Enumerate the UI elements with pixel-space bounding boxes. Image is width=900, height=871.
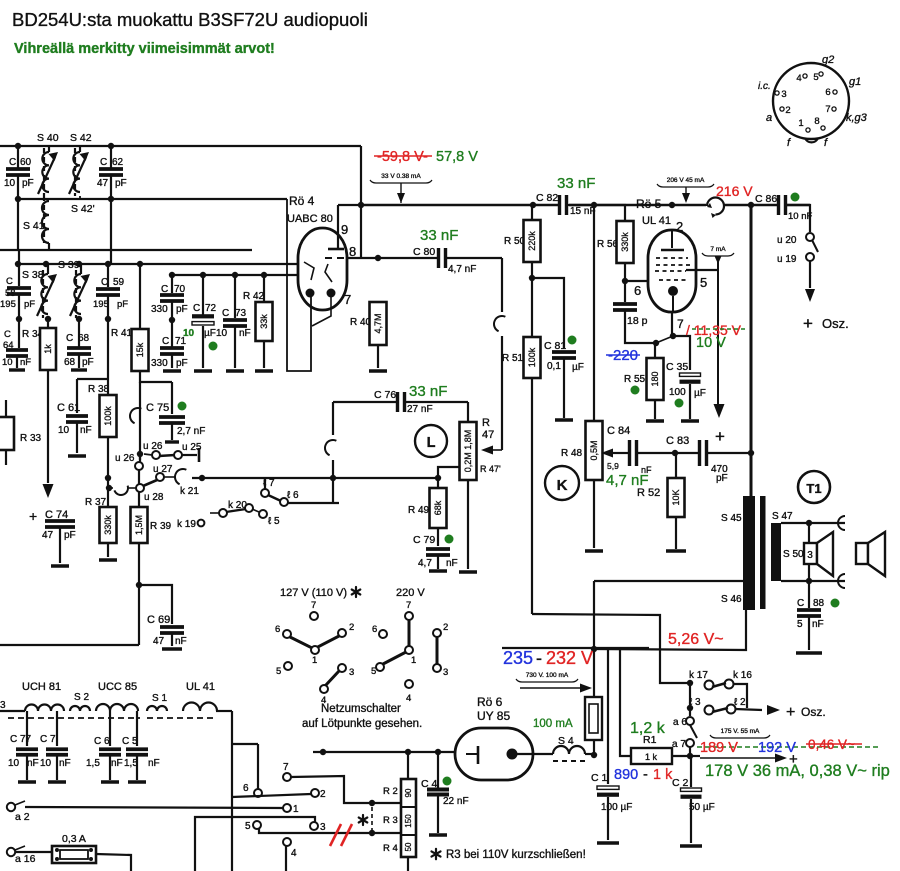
- svg-text:189 V: 189 V: [700, 740, 738, 756]
- svg-text:+: +: [715, 427, 725, 446]
- junction: [15, 196, 21, 202]
- svg-text:100 µF: 100 µF: [601, 802, 632, 813]
- svg-text:90: 90: [404, 788, 413, 797]
- svg-text:S 42: S 42: [70, 132, 92, 144]
- junction: [169, 272, 175, 278]
- svg-text:150: 150: [404, 814, 413, 828]
- svg-text:pF: pF: [24, 299, 35, 310]
- svg-text:216 V: 216 V: [716, 183, 753, 199]
- svg-text:k 19: k 19: [177, 519, 196, 530]
- hook to speaker2 top: [838, 516, 845, 530]
- svg-text:T1: T1: [806, 481, 821, 496]
- svg-text:C 75: C 75: [146, 402, 169, 414]
- wire divider feed from heater line: [407, 753, 409, 779]
- svg-text:a 16: a 16: [15, 853, 36, 865]
- svg-text:k 17: k 17: [689, 670, 708, 681]
- circle T1: [798, 471, 830, 503]
- svg-text:k 21: k 21: [180, 486, 199, 497]
- svg-text:R 52: R 52: [637, 487, 660, 499]
- fuse box on B+: [585, 697, 602, 740]
- svg-text:S 47: S 47: [772, 511, 793, 522]
- svg-text:S 45: S 45: [721, 513, 742, 524]
- wire R48 bottom to ground: [593, 480, 595, 548]
- svg-text:C 82: C 82: [536, 192, 558, 204]
- wire pin7 to C35: [673, 336, 690, 370]
- wire contact5 to R3 tap: [259, 828, 401, 833]
- svg-text:10: 10: [2, 357, 13, 368]
- svg-text:u 26: u 26: [143, 441, 163, 452]
- svg-text:5,9: 5,9: [607, 461, 619, 471]
- svg-text:1: 1: [798, 118, 803, 129]
- junction: [108, 196, 114, 202]
- wire node to measure arrow: [690, 755, 700, 757]
- wire R47 bottom to ground: [467, 480, 469, 569]
- transformer secondary bar S47: [771, 523, 781, 581]
- svg-text:10 V: 10 V: [696, 335, 726, 351]
- svg-text:auf Lötpunkte gesehen.: auf Lötpunkte gesehen.: [302, 718, 422, 730]
- svg-text:Rö 5: Rö 5: [636, 197, 662, 211]
- Rö4 grid dashes: [325, 257, 332, 259]
- wire R1 feed: [620, 650, 631, 756]
- svg-text:nF: nF: [20, 357, 31, 368]
- svg-text:Rö 4: Rö 4: [289, 194, 315, 208]
- ground: [255, 369, 273, 372]
- wire R34 down to C74 arrow: [47, 370, 49, 483]
- Rö5 internals: [671, 231, 673, 248]
- svg-text:5: 5: [797, 619, 803, 630]
- junction: [105, 475, 111, 481]
- svg-text:10: 10: [216, 328, 228, 339]
- wire R50 bottom to C81 column: [532, 278, 564, 348]
- junction: [622, 278, 628, 284]
- svg-text:2,7 nF: 2,7 nF: [177, 426, 205, 437]
- svg-text:1k: 1k: [43, 344, 53, 354]
- svg-text:7: 7: [344, 292, 351, 307]
- svg-text:-: -: [536, 648, 542, 668]
- wire divider bottom: [407, 857, 409, 871]
- svg-text:R3 bei 110V kurzschließen!: R3 bei 110V kurzschließen!: [446, 849, 586, 861]
- svg-text:R 48: R 48: [561, 448, 583, 459]
- svg-text:C: C: [222, 308, 229, 319]
- svg-text:22 nF: 22 nF: [443, 796, 469, 807]
- contact u26 tap ring: [135, 462, 143, 470]
- svg-text:UCC 85: UCC 85: [98, 681, 137, 693]
- ground: [680, 844, 702, 847]
- svg-text:68: 68: [78, 333, 90, 344]
- wire pin7 down: [671, 311, 673, 336]
- svg-text:C 79: C 79: [413, 534, 435, 546]
- svg-text:47: 47: [153, 636, 165, 647]
- svg-text:220k: 220k: [527, 231, 537, 251]
- svg-text:R 38: R 38: [88, 384, 110, 395]
- svg-text:10: 10: [40, 758, 52, 769]
- ground: [162, 647, 182, 650]
- svg-text:232 V: 232 V: [546, 648, 593, 668]
- ground: [194, 369, 212, 372]
- svg-text:C: C: [66, 333, 73, 344]
- svg-text:nF: nF: [111, 758, 123, 769]
- svg-text:R 33: R 33: [20, 433, 42, 444]
- ground: [429, 569, 447, 572]
- wire heater rail y=615: [532, 614, 688, 683]
- svg-text:7: 7: [406, 600, 411, 611]
- svg-text:33 nF: 33 nF: [557, 175, 595, 192]
- svg-text:C: C: [4, 329, 11, 340]
- wire 235V stub: [502, 647, 649, 649]
- svg-text:890: 890: [614, 767, 638, 783]
- svg-text:7 mA: 7 mA: [710, 246, 726, 253]
- wire C76 rail: [333, 401, 398, 403]
- hook crossing: [127, 405, 141, 423]
- svg-text:u 26: u 26: [115, 453, 135, 464]
- wire a16 to fuse: [15, 851, 52, 853]
- ground: [226, 369, 244, 372]
- S42-prime step wire: [79, 196, 81, 199]
- svg-text:100: 100: [669, 387, 686, 398]
- svg-text:R1: R1: [643, 734, 657, 746]
- ground: [597, 841, 619, 844]
- junction: [670, 333, 676, 339]
- svg-text:pF: pF: [716, 473, 728, 484]
- svg-text:R: R: [482, 417, 490, 429]
- arrow down from bracket: [400, 183, 402, 203]
- wire heater corner: [216, 710, 232, 712]
- svg-text:nF: nF: [812, 619, 824, 630]
- svg-text:5: 5: [245, 821, 251, 832]
- svg-text:2: 2: [443, 622, 448, 633]
- svg-text:72: 72: [205, 303, 217, 314]
- arrow down to Osz: [805, 289, 815, 302]
- svg-text:Netzumschalter: Netzumschalter: [321, 703, 401, 715]
- svg-text:pF: pF: [82, 357, 94, 368]
- Rö6 anode dot: [507, 749, 518, 760]
- red double slash: [330, 824, 341, 846]
- junction: [169, 317, 175, 323]
- junction: [672, 450, 678, 456]
- svg-text:+: +: [786, 704, 795, 721]
- svg-text:206 V 45 mA: 206 V 45 mA: [667, 177, 705, 184]
- svg-text:pF: pF: [64, 530, 76, 541]
- svg-text:27 nF: 27 nF: [407, 404, 433, 415]
- wire to R56: [594, 205, 625, 221]
- green dot: [209, 342, 218, 351]
- hook crossing on u28 wire: [114, 486, 130, 497]
- svg-text:330: 330: [151, 304, 168, 315]
- svg-text:S 40: S 40: [37, 132, 59, 144]
- wire rail T2 y=264: [18, 263, 302, 265]
- junction: [591, 752, 597, 758]
- svg-text:R 42: R 42: [243, 291, 265, 302]
- junction: [43, 261, 49, 267]
- junction: [806, 520, 812, 526]
- svg-text:57,8 V: 57,8 V: [436, 149, 478, 165]
- svg-text:2: 2: [349, 622, 354, 633]
- svg-text:C 6: C 6: [94, 736, 110, 747]
- svg-text:6: 6: [275, 624, 280, 635]
- dashed link with star: [371, 807, 373, 830]
- svg-text:7: 7: [283, 762, 289, 773]
- wire R1 to node: [672, 755, 690, 757]
- junction: [105, 261, 111, 267]
- wire rail T1 y=250: [0, 249, 252, 251]
- svg-text:nF: nF: [175, 636, 187, 647]
- tube socket diagram: [773, 63, 849, 142]
- svg-text:195: 195: [93, 299, 109, 310]
- svg-text:127 V (110 V): 127 V (110 V): [280, 587, 347, 599]
- svg-text:C 69: C 69: [147, 614, 170, 626]
- wire C83 to output column: [707, 452, 751, 454]
- svg-text:3: 3: [0, 700, 6, 711]
- svg-text:3: 3: [320, 822, 326, 833]
- svg-text:15 nF: 15 nF: [570, 206, 596, 217]
- wire ground bus bottom left: [0, 644, 139, 646]
- svg-text:UY 85: UY 85: [477, 709, 510, 723]
- wire u19 down to Osz: [809, 261, 811, 288]
- svg-text:68k: 68k: [433, 500, 443, 515]
- svg-text:7: 7: [311, 600, 316, 611]
- wire a2 to contact 1: [25, 807, 283, 808]
- svg-text:10: 10: [183, 328, 195, 339]
- green dashed measure line: [697, 746, 878, 748]
- svg-text:1: 1: [411, 655, 416, 666]
- wire rectifier output rail y=650: [594, 609, 746, 650]
- svg-text:C 5: C 5: [122, 736, 138, 747]
- svg-text:R 55: R 55: [624, 374, 646, 385]
- junction: [375, 255, 381, 261]
- svg-text:9: 9: [341, 222, 348, 237]
- svg-text:+: +: [29, 508, 37, 524]
- svg-text:Rö 6: Rö 6: [477, 695, 503, 709]
- svg-text:1 k: 1 k: [645, 752, 658, 762]
- ground: [99, 558, 117, 561]
- svg-text:220 V: 220 V: [396, 587, 425, 599]
- svg-text:60: 60: [20, 157, 32, 168]
- arrow down from bracket to anode rail: [685, 187, 687, 201]
- wire long u27 rail to R49: [192, 477, 438, 479]
- arrow right at measure point: [700, 757, 775, 759]
- junction: [108, 143, 114, 149]
- wire R51 down to heater rail: [531, 378, 533, 614]
- wire k16 to osz riser: [733, 684, 747, 708]
- svg-text:4,7: 4,7: [418, 558, 432, 569]
- svg-text:7: 7: [677, 317, 684, 331]
- junction: [15, 143, 21, 149]
- svg-text:8: 8: [814, 116, 819, 127]
- svg-text:R 41: R 41: [111, 328, 133, 339]
- svg-text:2: 2: [320, 789, 326, 800]
- wire top rail y=145: [0, 145, 361, 147]
- ground: [796, 651, 822, 654]
- svg-text:UL 41: UL 41: [642, 215, 671, 227]
- svg-text:5: 5: [700, 275, 707, 290]
- wire l3 junction: [689, 683, 691, 708]
- svg-text:1,5M: 1,5M: [134, 515, 144, 535]
- transformer primary bar S45/S46: [743, 496, 755, 610]
- svg-text:C 1: C 1: [591, 772, 608, 784]
- svg-text:Osz.: Osz.: [822, 316, 849, 331]
- svg-text:C: C: [6, 276, 13, 287]
- hook crossing: [322, 437, 336, 455]
- svg-text:C: C: [162, 336, 169, 347]
- svg-text:C 86: C 86: [755, 193, 777, 205]
- junction: [369, 800, 375, 806]
- wire u28 link: [108, 487, 113, 489]
- green dot: [568, 336, 577, 345]
- svg-text:S 1: S 1: [152, 693, 167, 704]
- svg-text:7: 7: [825, 104, 830, 115]
- ground: [68, 454, 86, 457]
- wire Rö6 anode to S4: [517, 753, 553, 755]
- svg-text:C 83: C 83: [666, 435, 689, 447]
- wire R41 bottom: [140, 371, 172, 382]
- wire B+ rail to transformer S46 top: [594, 580, 743, 582]
- svg-text:5,26 V~: 5,26 V~: [668, 631, 724, 648]
- ground: [555, 418, 573, 421]
- svg-text:S 42': S 42': [71, 203, 95, 215]
- svg-text:a 6: a 6: [673, 717, 687, 728]
- wire AVC node: [77, 378, 108, 380]
- svg-text:1 k: 1 k: [653, 767, 673, 783]
- svg-text:10: 10: [4, 178, 16, 189]
- svg-text:C 2: C 2: [672, 777, 689, 789]
- svg-text:R 2: R 2: [383, 786, 398, 797]
- svg-text:18 p: 18 p: [627, 315, 648, 327]
- svg-text:nF: nF: [80, 425, 92, 436]
- svg-text:330k: 330k: [103, 515, 113, 535]
- svg-text:g1: g1: [849, 76, 861, 88]
- ground: [71, 368, 87, 371]
- svg-text:10K: 10K: [671, 489, 681, 505]
- svg-text:2: 2: [676, 219, 683, 234]
- svg-text:pF: pF: [176, 304, 188, 315]
- junction: [687, 753, 693, 759]
- wire rail T3 y=275: [172, 274, 302, 276]
- svg-text:pF: pF: [176, 358, 188, 369]
- wire tap to contact 6: [232, 743, 258, 745]
- arrow to B+ line: [520, 687, 580, 689]
- svg-text:u 19: u 19: [777, 254, 797, 265]
- ground: [666, 549, 686, 552]
- svg-text:C 35: C 35: [666, 361, 688, 373]
- svg-text:-59,8 V-: -59,8 V-: [377, 149, 428, 165]
- svg-text:2: 2: [785, 105, 790, 116]
- Rö6 cathode bar: [477, 746, 480, 764]
- contact a2: [7, 803, 15, 811]
- wire C86 to u20 contact: [786, 205, 810, 232]
- svg-text:C: C: [9, 157, 16, 168]
- svg-text:nF: nF: [59, 758, 71, 769]
- svg-text:K: K: [557, 477, 568, 494]
- junction: [591, 646, 597, 652]
- wire to R47 wiper arrow: [490, 449, 502, 451]
- svg-text:50 µF: 50 µF: [689, 802, 715, 813]
- wire fuse out: [96, 854, 131, 871]
- svg-text:µF: µF: [204, 328, 216, 339]
- svg-text:73: 73: [235, 308, 247, 319]
- svg-text:R 51: R 51: [502, 353, 524, 364]
- circle L: [415, 425, 447, 457]
- svg-text:100 mA: 100 mA: [533, 718, 573, 730]
- svg-text:10 nF: 10 nF: [788, 211, 812, 222]
- wire grid line down to R47 wiper: [501, 258, 503, 312]
- svg-text:C: C: [797, 598, 804, 609]
- svg-text:10: 10: [8, 758, 20, 769]
- junction: [748, 450, 754, 456]
- svg-text:5: 5: [276, 666, 281, 677]
- junction: [76, 261, 82, 267]
- svg-text:nF: nF: [148, 758, 160, 769]
- wire S41 bottom to T1: [48, 249, 50, 251]
- Rö4 internal anode bar: [328, 248, 344, 251]
- hook crossing: [491, 313, 505, 331]
- svg-text:180: 180: [650, 371, 660, 386]
- junction: [369, 830, 375, 836]
- wire C80 to grid drop: [446, 257, 502, 259]
- svg-text:33k: 33k: [259, 314, 269, 329]
- junction: [199, 475, 205, 481]
- svg-text:0,2M 1,8M: 0,2M 1,8M: [463, 430, 473, 473]
- wire corner from T-rail through main wire to pin8: [360, 146, 362, 259]
- ground: [681, 419, 699, 422]
- junction: [330, 475, 336, 481]
- svg-text:C 76: C 76: [374, 389, 396, 401]
- wire k17 junction: [687, 680, 693, 686]
- wire cathode rail y=199: [18, 198, 287, 200]
- svg-text:Vihreällä merkitty viimeisimmä: Vihreällä merkitty viimeisimmät arvot!: [14, 41, 275, 57]
- svg-text:330: 330: [151, 358, 168, 369]
- wire l2 to osz arrow: [735, 709, 762, 710]
- junction: [15, 261, 21, 267]
- speaker 2: [856, 543, 868, 564]
- svg-text:R 3: R 3: [383, 815, 398, 826]
- svg-text:ℓ 5: ℓ 5: [268, 516, 280, 527]
- junction: [136, 582, 142, 588]
- svg-text:a 2: a 2: [15, 811, 30, 823]
- wire left drop to tone rail: [332, 402, 334, 435]
- svg-text:47: 47: [97, 178, 109, 189]
- arrow down to C74: [47, 460, 49, 483]
- svg-text:ℓ 2: ℓ 2: [734, 697, 746, 708]
- wire pin5 to measure line: [686, 269, 718, 271]
- svg-text:4: 4: [291, 848, 297, 859]
- svg-text:pF: pF: [115, 178, 127, 189]
- svg-text:3: 3: [349, 667, 354, 678]
- green dot: [443, 777, 452, 786]
- wire 18p bottom: [624, 281, 626, 302]
- svg-text:Osz.: Osz.: [801, 705, 826, 719]
- svg-text:4: 4: [796, 73, 801, 84]
- wire C1 tap: [607, 650, 609, 784]
- arrow right Osz mid: [767, 705, 780, 715]
- svg-text:R 39: R 39: [150, 521, 172, 532]
- wire C84 to C83: [637, 452, 699, 454]
- svg-text:6: 6: [243, 783, 249, 794]
- junction: [137, 261, 143, 267]
- heater dashed line: [8, 717, 140, 719]
- wire contact3 to left drop: [195, 817, 315, 871]
- svg-text:L: L: [427, 435, 436, 451]
- svg-text:50: 50: [404, 842, 413, 851]
- wire secondary top: [781, 522, 845, 524]
- svg-text:5: 5: [813, 72, 818, 83]
- svg-text:0,3 A: 0,3 A: [62, 833, 86, 845]
- svg-text:6: 6: [634, 283, 641, 298]
- svg-text:u 20: u 20: [777, 235, 797, 246]
- ground: [51, 564, 69, 567]
- loop symbol on main wire: [707, 198, 724, 215]
- svg-text:R 49: R 49: [408, 505, 430, 516]
- contact a16: [7, 848, 15, 856]
